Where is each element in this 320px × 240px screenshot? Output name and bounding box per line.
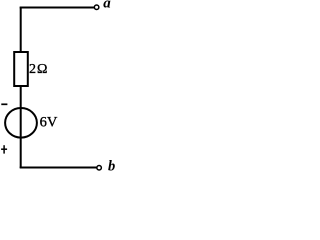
svg-text:2: 2 [29, 62, 36, 77]
voltage source V1 circle [5, 108, 37, 138]
wire bottom horizontal [20, 167, 97, 169]
svg-text:b: b [108, 158, 115, 174]
polarity plus sign [1, 145, 7, 153]
svg-text:6V: 6V [40, 114, 58, 130]
svg-text:Ω: Ω [37, 62, 47, 77]
wire left vertical branch [20, 7, 22, 168]
polarity minus sign [1, 103, 7, 105]
terminal node b [97, 166, 102, 171]
svg-text:a: a [103, 0, 111, 12]
terminal node a [94, 5, 99, 10]
resistor R1 body [14, 52, 28, 86]
wire top horizontal [20, 7, 94, 9]
